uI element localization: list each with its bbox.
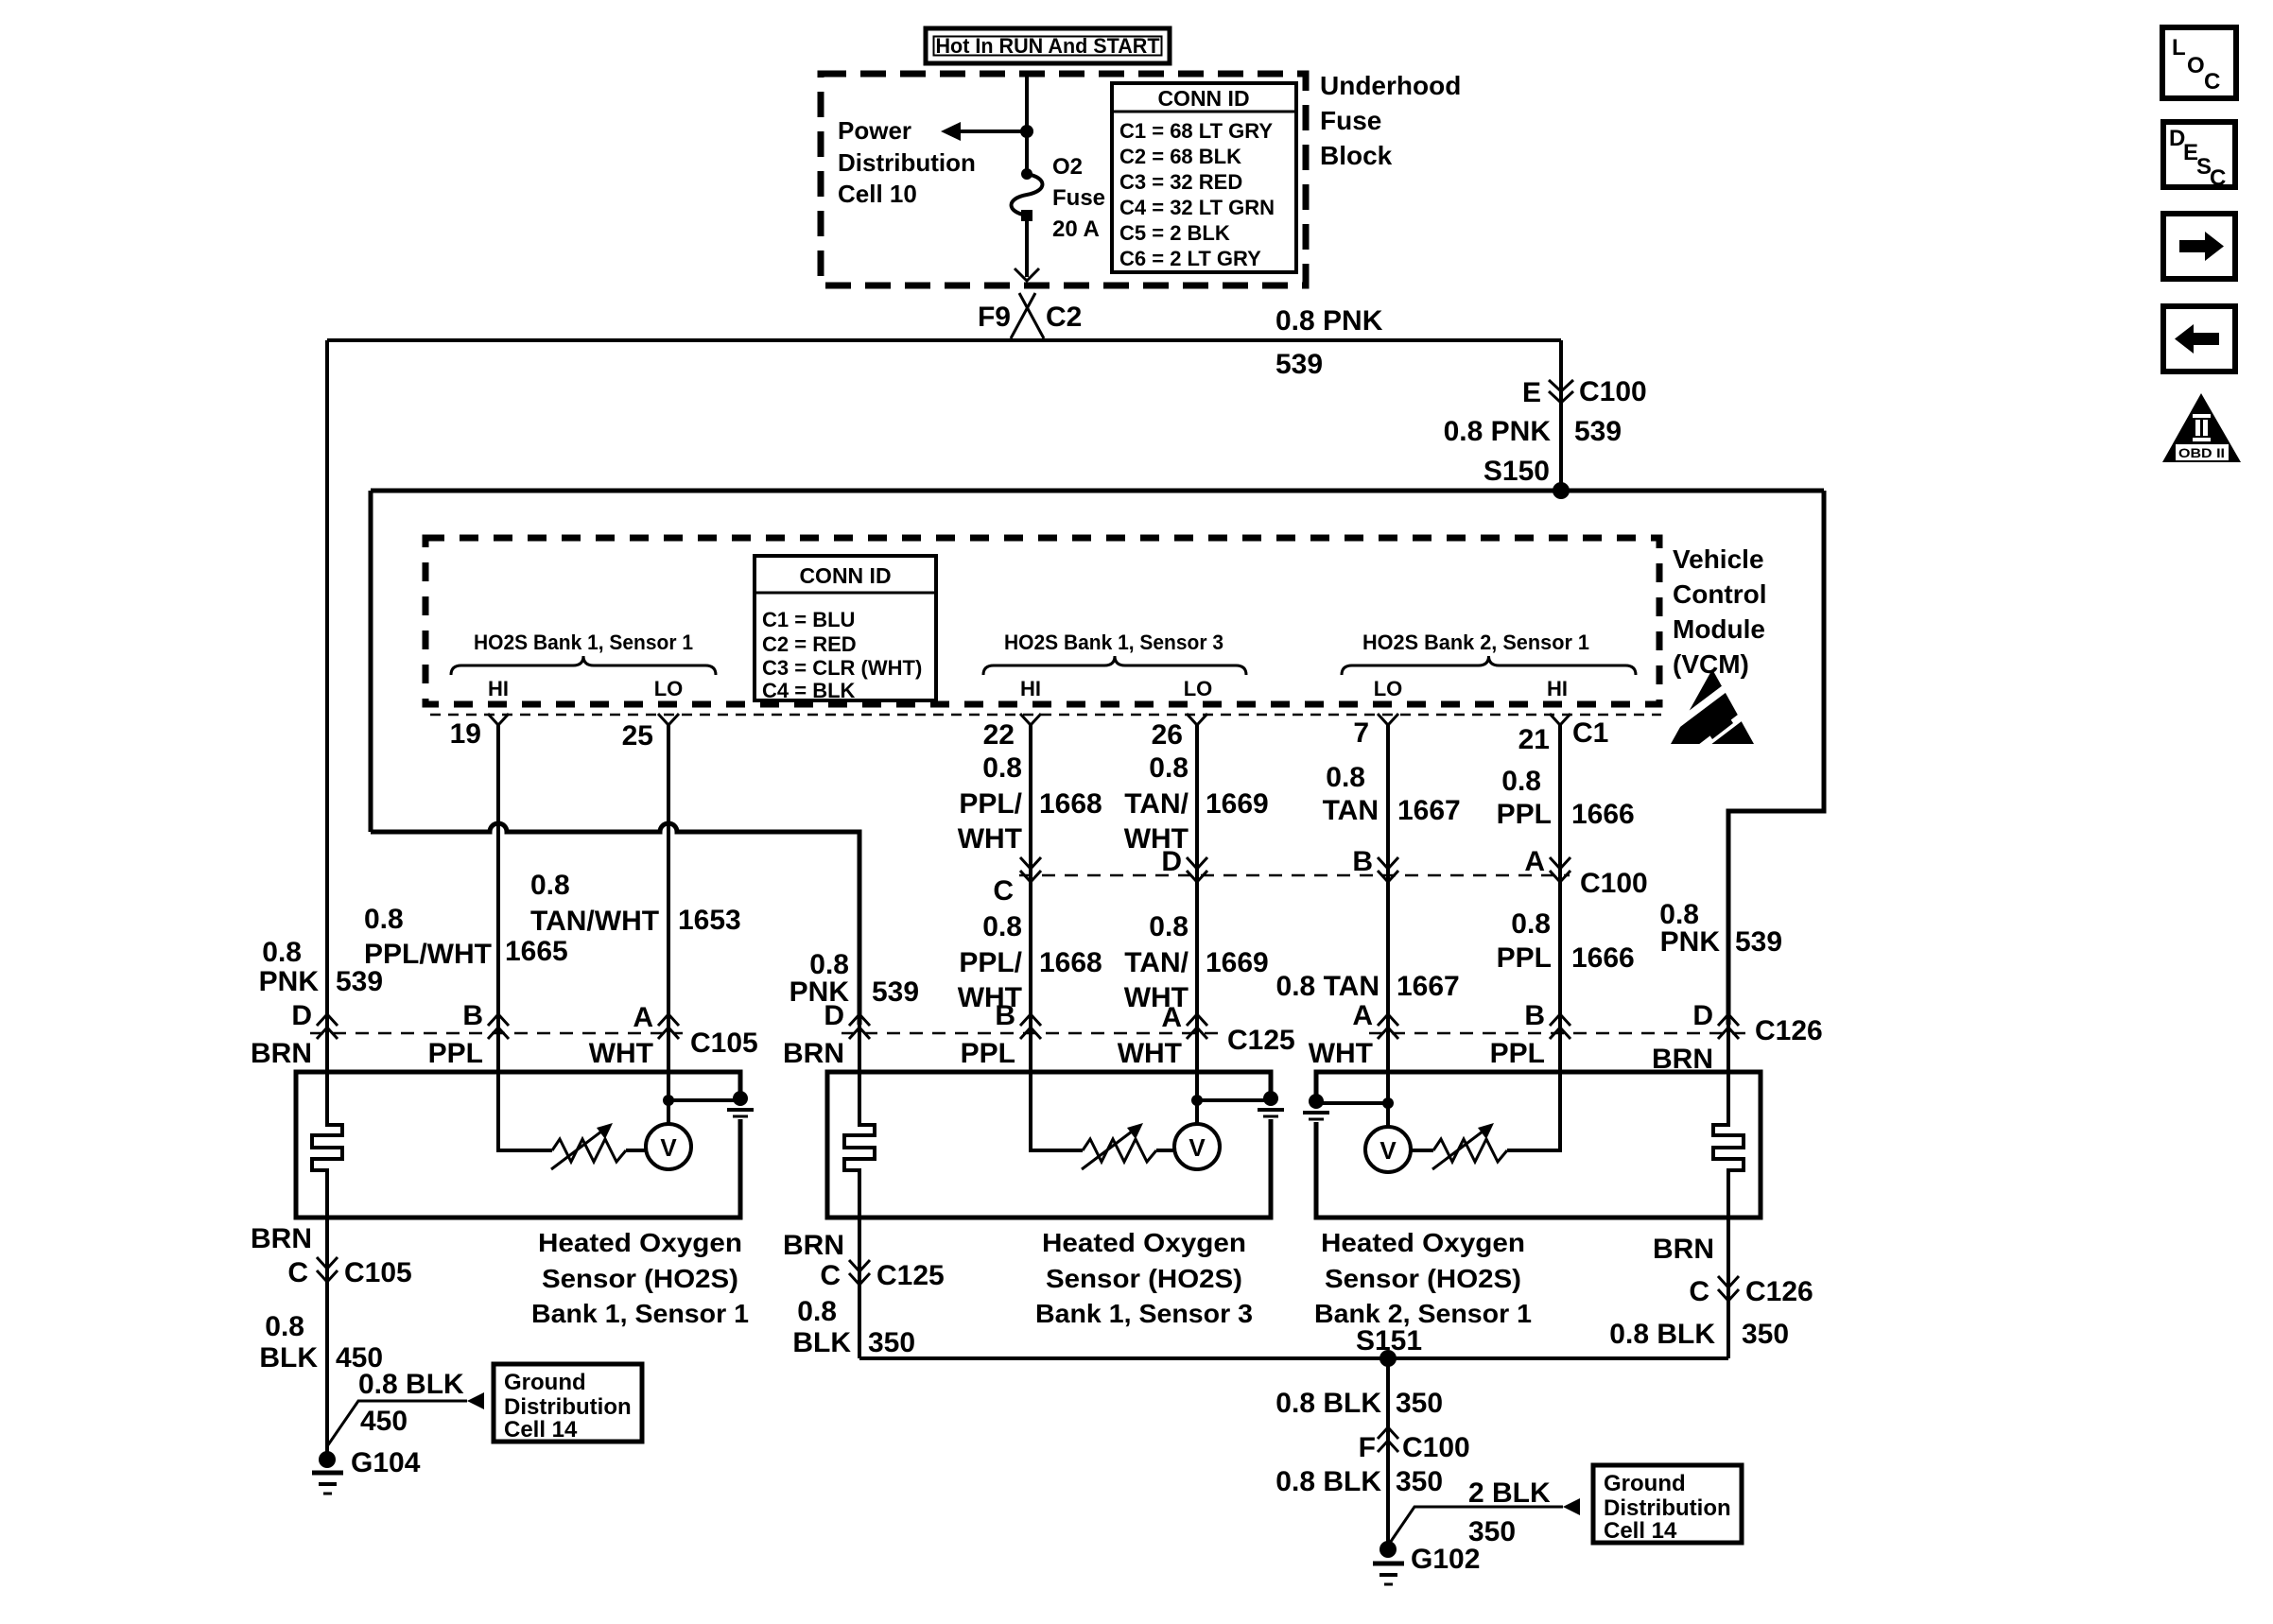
svg-text:0.8 BLK: 0.8 BLK: [1275, 1388, 1381, 1419]
svg-text:O: O: [2187, 53, 2205, 78]
wire: BLK 350 from S151 down to G102: [1386, 1358, 1390, 1549]
brace: HO2S Bank 1 Sensor 3 pins: [983, 656, 1246, 675]
connector C100 body line: [1019, 874, 1570, 877]
svg-text:G104: G104: [351, 1447, 421, 1478]
node: splice S151: [1379, 1350, 1397, 1367]
svg-text:0.8: 0.8: [1501, 766, 1541, 797]
variable sense resistor (B2S1): [1433, 1139, 1507, 1162]
svg-text:CONN ID: CONN ID: [799, 563, 891, 588]
svg-text:WHT: WHT: [589, 1038, 653, 1069]
label: 0.8 PPL/ WHT 1668 (lower): [958, 911, 1102, 1013]
svg-text:B: B: [995, 1000, 1015, 1031]
svg-text:539: 539: [1275, 349, 1323, 380]
svg-text:1669: 1669: [1206, 788, 1269, 820]
voltmeter V (B2S1): [1365, 1127, 1411, 1172]
label: Heated Oxygen Sensor (HO2S) Bank 2, Sensor 1: [1314, 1228, 1532, 1328]
svg-text:C105: C105: [690, 1028, 758, 1059]
svg-text:A: A: [1161, 1002, 1182, 1033]
heater element (HO2S B2S1): [1713, 1025, 1744, 1218]
svg-text:BRN: BRN: [783, 1038, 844, 1069]
svg-text:1668: 1668: [1039, 947, 1102, 978]
svg-text:C: C: [820, 1260, 841, 1291]
Ground Distribution Cell 14 box (right): [1593, 1465, 1742, 1544]
svg-text:1668: 1668: [1039, 788, 1102, 820]
svg-text:V: V: [1379, 1136, 1397, 1165]
voltmeter V (B1S1): [646, 1124, 691, 1169]
svg-text:1667: 1667: [1397, 795, 1461, 826]
svg-text:539: 539: [336, 966, 383, 997]
connector C100 pin C terminal: [1020, 857, 1041, 882]
svg-text:C3 = 32 RED: C3 = 32 RED: [1119, 170, 1242, 194]
svg-text:C100: C100: [1580, 868, 1648, 899]
svg-text:1653: 1653: [678, 905, 741, 936]
wire: resistor to voltmeter (B1S3): [1156, 1149, 1175, 1152]
ground: sensor case ground (B1S1): [727, 1091, 754, 1116]
svg-text:Cell 10: Cell 10: [838, 180, 917, 208]
svg-text:B: B: [462, 1000, 483, 1031]
svg-text:BRN: BRN: [251, 1038, 312, 1069]
svg-text:C2: C2: [1046, 302, 1082, 333]
svg-text:450: 450: [360, 1406, 408, 1437]
svg-text:Ground: Ground: [504, 1370, 586, 1395]
svg-text:C126: C126: [1755, 1015, 1823, 1046]
svg-text:TAN/WHT: TAN/WHT: [530, 906, 659, 937]
wire: feed from Hot In RUN into fuse block: [1025, 74, 1029, 131]
svg-text:D: D: [1161, 846, 1182, 877]
svg-text:Distribution: Distribution: [1604, 1495, 1731, 1521]
fuse F9: O2 Fuse 20 A: [1012, 168, 1043, 221]
label: 0.8 TAN 1667 (lower): [1276, 971, 1460, 1002]
svg-text:HO2S Bank 2, Sensor 1: HO2S Bank 2, Sensor 1: [1362, 631, 1589, 654]
svg-text:C125: C125: [876, 1260, 945, 1291]
node: sensor shell junction (B1S3): [1191, 1095, 1203, 1106]
svg-text:Bank 1, Sensor 1: Bank 1, Sensor 1: [531, 1299, 749, 1328]
svg-text:Bank 1, Sensor 3: Bank 1, Sensor 3: [1035, 1299, 1253, 1328]
svg-text:350: 350: [1396, 1466, 1443, 1497]
svg-text:539: 539: [1735, 926, 1782, 958]
wire: PNK 539 left leg down VCM side: [369, 491, 373, 832]
svg-text:O2: O2: [1052, 154, 1083, 180]
VCM pin 22 terminal: [1020, 714, 1041, 725]
svg-text:WHT: WHT: [1118, 1038, 1182, 1069]
svg-text:WHT: WHT: [1309, 1038, 1373, 1069]
connector C100 pin F terminal: [1378, 1427, 1398, 1452]
svg-text:PPL: PPL: [1497, 799, 1552, 830]
svg-text:0.8 BLK: 0.8 BLK: [1609, 1319, 1715, 1350]
label: Heated Oxygen Sensor (HO2S) Bank 1, Sensor 3: [1035, 1228, 1253, 1328]
svg-text:D: D: [291, 1000, 312, 1031]
svg-text:0.8 PNK: 0.8 PNK: [1444, 416, 1552, 447]
wire: shell ground link (B2S1): [1316, 1101, 1388, 1105]
svg-text:PPL: PPL: [1490, 1038, 1545, 1069]
Underhood Fuse Block dashed box: [821, 74, 1306, 285]
icon: left arrow box: [2163, 306, 2235, 371]
label: Heated Oxygen Sensor (HO2S) Bank 1, Sensor 1: [531, 1228, 749, 1328]
svg-text:HO2S Bank 1, Sensor 1: HO2S Bank 1, Sensor 1: [474, 631, 693, 654]
svg-text:BRN: BRN: [783, 1230, 844, 1261]
connector C126 body line: [1369, 1032, 1747, 1035]
connector C126 pin B terminal: [1550, 1014, 1570, 1039]
svg-text:PNK: PNK: [259, 966, 320, 997]
svg-text:LO: LO: [1374, 677, 1403, 700]
label: Power Distribution Cell 10: [838, 116, 976, 208]
Heated Oxygen Sensor (HO2S) Bank 1, Sensor 3 box: [827, 1072, 1271, 1218]
svg-text:2 BLK: 2 BLK: [1468, 1477, 1551, 1509]
svg-text:B: B: [1352, 846, 1373, 877]
svg-text:OBD II: OBD II: [2178, 445, 2225, 460]
svg-text:S150: S150: [1484, 456, 1550, 487]
svg-text:A: A: [1352, 1000, 1373, 1031]
svg-text:C6 = 2 LT GRY: C6 = 2 LT GRY: [1119, 247, 1261, 270]
connector C100 pin D terminal: [1187, 857, 1207, 882]
svg-text:WHT: WHT: [958, 823, 1022, 855]
Vehicle Control Module dashed box: [425, 538, 1659, 704]
brace: HO2S Bank 1 Sensor 1 pins: [451, 656, 716, 675]
label: 0.8 TAN/ WHT 1669 (lower): [1124, 911, 1269, 1013]
connector C105 pin B terminal: [488, 1014, 509, 1039]
VCM connector C1 face line: [430, 714, 1661, 717]
variable sense resistor (B1S3): [1083, 1139, 1156, 1162]
svg-text:A: A: [633, 1002, 653, 1033]
wire: WHT signal to voltmeter top (B1S3): [1195, 1025, 1199, 1124]
wire: WHT signal to voltmeter top (B1S1): [667, 1025, 670, 1124]
label: Underhood Fuse Block: [1320, 71, 1461, 170]
label: 0.8 PNK 539 (C125 feed): [789, 949, 919, 1008]
Heated Oxygen Sensor (HO2S) Bank 1, Sensor 1 box: [296, 1072, 740, 1218]
icon: OBD II triangle: [2162, 393, 2241, 462]
wire: 0.8 PNK 539 horizontal bus from C2: [327, 338, 1561, 342]
svg-text:0.8 BLK: 0.8 BLK: [358, 1369, 464, 1400]
svg-text:Module: Module: [1673, 614, 1765, 644]
svg-text:0.8 BLK: 0.8 BLK: [1275, 1466, 1381, 1497]
svg-text:V: V: [660, 1133, 677, 1162]
heater element (HO2S B1S3): [844, 1025, 875, 1218]
svg-text:1666: 1666: [1571, 942, 1635, 974]
svg-text:E: E: [1522, 377, 1541, 408]
svg-text:Heated Oxygen: Heated Oxygen: [538, 1228, 742, 1257]
wire: fuse output down to F9 terminal: [1015, 216, 1039, 281]
svg-text:0.8: 0.8: [1511, 908, 1551, 940]
wire: PPL signal into sense element (B1S1): [498, 1025, 552, 1150]
svg-text:Heated Oxygen: Heated Oxygen: [1042, 1228, 1246, 1257]
svg-text:C4 = 32 LT GRN: C4 = 32 LT GRN: [1119, 196, 1275, 219]
svg-text:Sensor (HO2S): Sensor (HO2S): [1046, 1264, 1242, 1293]
svg-text:Vehicle: Vehicle: [1673, 544, 1764, 574]
svg-text:PPL/WHT: PPL/WHT: [364, 939, 492, 970]
svg-text:TAN: TAN: [1323, 795, 1379, 826]
wire: junction down to fuse: [1025, 131, 1029, 174]
wire: PNK 539 right leg down to C126 D: [1728, 491, 1824, 1025]
svg-text:Cell 14: Cell 14: [504, 1417, 578, 1443]
svg-text:A: A: [1524, 846, 1545, 877]
label: 0.8 BLK 350 (C125 C): [792, 1296, 915, 1358]
svg-text:C100: C100: [1579, 376, 1647, 407]
node: power distribution tap junction: [1020, 125, 1033, 138]
label: 0.8 BLK 350 (below F C100): [1275, 1466, 1443, 1497]
svg-text:PPL: PPL: [961, 1038, 1015, 1069]
svg-text:C: C: [287, 1257, 308, 1288]
svg-text:PPL: PPL: [1497, 942, 1552, 974]
svg-text:C: C: [2210, 165, 2226, 191]
svg-text:C3 = CLR (WHT): C3 = CLR (WHT): [762, 656, 922, 680]
connector C100 pin A terminal: [1550, 857, 1570, 882]
svg-text:0.8: 0.8: [1326, 762, 1365, 793]
svg-text:Hot In RUN And START: Hot In RUN And START: [936, 34, 1161, 58]
svg-text:Control: Control: [1673, 579, 1767, 609]
variable sense resistor (B1S1): [552, 1139, 626, 1162]
svg-text:BRN: BRN: [251, 1223, 312, 1254]
connector C126 pin C terminal: [1718, 1276, 1739, 1301]
label: 0.8 BLK 450: [259, 1311, 383, 1373]
connector C126 pin D terminal: [1718, 1014, 1739, 1039]
wire: PNK right branch down to C100 E: [1559, 340, 1563, 491]
svg-text:Ground: Ground: [1604, 1471, 1686, 1496]
svg-text:G102: G102: [1411, 1544, 1480, 1575]
svg-text:Heated Oxygen: Heated Oxygen: [1321, 1228, 1525, 1257]
ground G102: [1373, 1541, 1404, 1584]
svg-text:539: 539: [1574, 416, 1622, 447]
CONN ID table (VCM): [755, 556, 936, 702]
svg-text:Power: Power: [838, 116, 911, 145]
svg-text:TAN/: TAN/: [1124, 947, 1189, 978]
wire: TAN/WHT 1653 from pin 25 to C105 A: [667, 723, 670, 1025]
wire: BRN from B1S1 to C105 C: [325, 1218, 329, 1460]
svg-text:0.8 PNK: 0.8 PNK: [1275, 305, 1383, 337]
svg-text:D: D: [824, 1000, 844, 1031]
brace: HO2S Bank 2 Sensor 1 pins: [1342, 656, 1636, 675]
svg-text:PPL/: PPL/: [959, 788, 1022, 820]
ground G104: [312, 1451, 343, 1494]
label: 0.8 BLK 350 (above F C100): [1275, 1388, 1443, 1419]
ground: sensor case ground (B1S3): [1258, 1091, 1284, 1116]
Ground Distribution Cell 14 box (left): [494, 1364, 642, 1443]
svg-text:0.8 TAN: 0.8 TAN: [1276, 971, 1379, 1002]
wire: TAN 1667 from pin 7 through C100 to C126 A: [1386, 723, 1390, 1025]
svg-text:BLK: BLK: [259, 1342, 318, 1373]
node: splice S150: [1553, 482, 1570, 499]
connector C105 pin C terminal: [317, 1257, 338, 1282]
CONN ID table (underhood fuse block): [1112, 83, 1296, 272]
svg-text:Fuse: Fuse: [1320, 106, 1381, 135]
svg-text:PNK: PNK: [1660, 926, 1721, 958]
svg-text:7: 7: [1353, 717, 1369, 749]
svg-text:C4 = BLK: C4 = BLK: [762, 679, 856, 702]
svg-text:C105: C105: [344, 1257, 412, 1288]
label: O2 Fuse 20 A: [1052, 154, 1105, 242]
VCM pin 26 terminal: [1187, 714, 1207, 725]
svg-text:TAN/: TAN/: [1124, 788, 1189, 820]
connector C125 pin D terminal: [849, 1014, 870, 1039]
svg-text:PPL: PPL: [428, 1038, 483, 1069]
VCM pin 7 terminal: [1378, 714, 1398, 725]
svg-text:BLK: BLK: [792, 1327, 851, 1358]
svg-text:25: 25: [622, 720, 653, 752]
wire: TAN/WHT 1669 from pin 26 through C100 to C125 A: [1195, 723, 1199, 1025]
svg-text:HI: HI: [1547, 677, 1568, 700]
svg-text:C5 = 2 BLK: C5 = 2 BLK: [1119, 221, 1230, 245]
svg-text:C: C: [1689, 1276, 1709, 1307]
svg-text:BRN: BRN: [1653, 1234, 1714, 1265]
connector C105 pin A terminal: [658, 1014, 679, 1039]
connector C125 pin A terminal: [1187, 1014, 1207, 1039]
connector F9/C2 (fuse block output): [1011, 293, 1044, 338]
svg-text:20 A: 20 A: [1052, 216, 1100, 242]
svg-text:PPL/: PPL/: [959, 947, 1022, 978]
VCM pin 21 terminal: [1550, 714, 1570, 725]
node: sensor shell junction (B2S1): [1382, 1097, 1394, 1109]
wire: PPL/WHT 1668 from pin 22 through C100 to C125 B: [1029, 723, 1032, 1025]
connector C126 pin A terminal: [1378, 1014, 1398, 1039]
connector C105 body line: [310, 1032, 683, 1035]
svg-text:0.8: 0.8: [364, 904, 404, 935]
svg-text:HI: HI: [1020, 677, 1041, 700]
svg-text:350: 350: [1742, 1319, 1789, 1350]
wire: shell ground link (B1S1): [668, 1098, 740, 1102]
svg-text:L: L: [2172, 35, 2186, 60]
svg-text:C100: C100: [1402, 1432, 1470, 1463]
svg-text:26: 26: [1152, 719, 1183, 751]
svg-text:C1 = BLU: C1 = BLU: [762, 608, 855, 631]
heater element (HO2S B1S1): [312, 1025, 342, 1218]
label: 0.8 PPL 1666 (upper): [1497, 766, 1635, 830]
svg-text:1669: 1669: [1206, 947, 1269, 978]
svg-text:C: C: [2204, 69, 2220, 95]
label: 0.8 BLK 350 (C126 C): [1609, 1319, 1789, 1350]
wire: 0.8 BLK 450 to ground distribution: [327, 1392, 484, 1446]
label box: Hot In RUN And START: [926, 28, 1170, 63]
svg-text:Fuse: Fuse: [1052, 185, 1105, 211]
connector C125 body line: [842, 1032, 1220, 1035]
wire: PNK 539 from S150 across VCM top: [371, 489, 1824, 493]
ESD static-sensitive symbol: [1665, 669, 1758, 750]
svg-text:LO: LO: [654, 677, 684, 700]
Heated Oxygen Sensor (HO2S) Bank 2, Sensor 1 box: [1316, 1072, 1761, 1218]
wire: BRN from B1S3 to C125 C and down: [858, 1218, 861, 1358]
svg-text:HI: HI: [488, 677, 509, 700]
wire: PNK 539 lower run with hops to C125 D: [371, 823, 859, 1025]
label: Vehicle Control Module (VCM): [1673, 544, 1767, 679]
svg-text:1666: 1666: [1571, 799, 1635, 830]
connector C100 pin E (double chevron): [1549, 380, 1573, 403]
wire: WHT signal to voltmeter top (B2S1): [1386, 1025, 1390, 1127]
ground: sensor case ground (B2S1): [1303, 1094, 1329, 1119]
label: 0.8 PNK 539 (left branch): [259, 937, 383, 997]
voltmeter V (B1S3): [1174, 1124, 1220, 1169]
svg-text:LO: LO: [1184, 677, 1213, 700]
svg-text:B: B: [1524, 1000, 1545, 1031]
svg-text:1665: 1665: [505, 936, 568, 967]
wire: arrow to Power Distribution Cell 10: [941, 122, 1027, 141]
svg-text:0.8: 0.8: [982, 752, 1022, 784]
svg-text:19: 19: [450, 718, 481, 750]
svg-text:Cell 14: Cell 14: [1604, 1518, 1677, 1544]
connector C105 pin D terminal: [317, 1014, 338, 1039]
svg-text:C: C: [993, 875, 1014, 907]
svg-text:0.8: 0.8: [265, 1311, 304, 1342]
label: 0.8 PPL 1666 (lower): [1497, 908, 1635, 974]
svg-text:Bank 2, Sensor 1: Bank 2, Sensor 1: [1314, 1299, 1532, 1328]
svg-text:C1: C1: [1572, 717, 1608, 749]
svg-text:Distribution: Distribution: [838, 148, 976, 177]
label: 0.8 TAN/ WHT 1669 (upper): [1124, 752, 1269, 855]
svg-text:HO2S Bank 1, Sensor 3: HO2S Bank 1, Sensor 3: [1004, 631, 1223, 654]
svg-text:0.8: 0.8: [797, 1296, 837, 1327]
svg-text:C2 = RED: C2 = RED: [762, 632, 857, 656]
svg-text:C1 = 68 LT GRY: C1 = 68 LT GRY: [1119, 119, 1273, 143]
connector C100 pin B terminal: [1378, 857, 1398, 882]
svg-text:Underhood: Underhood: [1320, 71, 1461, 100]
node: sensor shell junction (B1S1): [663, 1095, 674, 1106]
label: 0.8 TAN/WHT 1653: [530, 870, 741, 937]
wire: shell ground link (B1S3): [1197, 1098, 1271, 1102]
connector C125 pin B terminal: [1020, 1014, 1041, 1039]
icon: LOC box: [2162, 27, 2236, 98]
svg-text:0.8: 0.8: [1149, 911, 1189, 942]
wire: BLK 350 splice bus S151: [859, 1356, 1728, 1360]
svg-text:0.8: 0.8: [1149, 752, 1189, 784]
svg-text:350: 350: [868, 1327, 915, 1358]
svg-text:F: F: [1359, 1432, 1376, 1463]
svg-text:539: 539: [872, 976, 919, 1008]
label: 0.8 PNK 539 (C126 feed): [1659, 899, 1782, 958]
label: 0.8 PPL/ WHT 1668 (upper): [958, 752, 1102, 855]
icon: DESC box: [2163, 122, 2235, 191]
svg-text:0.8: 0.8: [262, 937, 302, 968]
svg-text:0.8: 0.8: [530, 870, 570, 901]
svg-text:0.8: 0.8: [982, 911, 1022, 942]
svg-text:Sensor (HO2S): Sensor (HO2S): [1325, 1264, 1521, 1293]
svg-text:D: D: [1692, 1000, 1713, 1031]
wire: voltmeter to resistor (B2S1): [1411, 1149, 1433, 1152]
wire: PNK left branch down to C105 D: [325, 340, 329, 1025]
svg-text:Sensor (HO2S): Sensor (HO2S): [542, 1264, 738, 1293]
svg-text:21: 21: [1518, 724, 1550, 755]
wire: PPL signal into sense element (B1S3): [1031, 1025, 1083, 1150]
svg-text:22: 22: [983, 719, 1015, 751]
svg-text:C126: C126: [1745, 1276, 1813, 1307]
icon: right arrow box: [2163, 214, 2235, 279]
svg-text:1667: 1667: [1397, 971, 1460, 1002]
VCM pin 19 terminal: [488, 714, 509, 725]
svg-text:Distribution: Distribution: [504, 1394, 632, 1420]
label: 0.8 PPL/WHT 1665: [364, 904, 568, 970]
svg-text:Block: Block: [1320, 141, 1393, 170]
svg-text:CONN ID: CONN ID: [1157, 86, 1249, 111]
VCM pin 25 terminal: [658, 714, 679, 725]
wire: resistor to voltmeter (B1S1): [626, 1149, 646, 1152]
svg-text:350: 350: [1396, 1388, 1443, 1419]
label: 0.8 TAN 1667 (upper): [1323, 762, 1461, 826]
wire: PPL 1666 from pin 21 through C100 to C126 B: [1558, 723, 1562, 1025]
connector C125 pin C terminal: [849, 1260, 870, 1285]
wire: resistor to PPL signal (B2S1): [1507, 1025, 1560, 1150]
wire: 2 BLK 350 to ground distribution: [1388, 1498, 1580, 1546]
svg-text:V: V: [1189, 1133, 1206, 1162]
svg-text:F9: F9: [978, 302, 1011, 333]
svg-text:C125: C125: [1227, 1025, 1295, 1056]
wire: BRN from B2S1 to C126 C and down: [1726, 1218, 1730, 1358]
svg-text:C2 = 68 BLK: C2 = 68 BLK: [1119, 145, 1241, 168]
wire: PPL/WHT 1665 from pin 19 to C105 B: [496, 723, 500, 1025]
